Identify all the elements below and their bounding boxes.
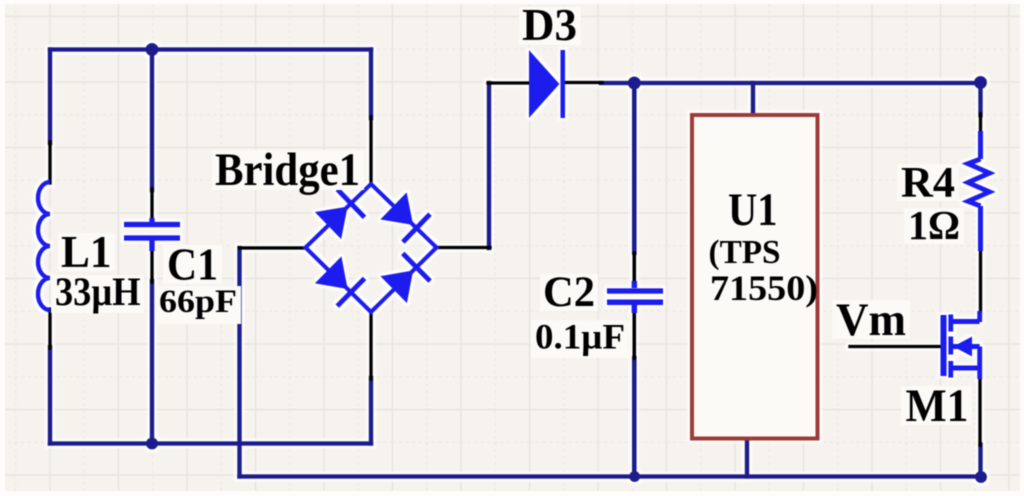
svg-text:C2: C2 <box>543 269 595 316</box>
svg-text:71550): 71550) <box>710 268 818 308</box>
svg-text:0.1µF: 0.1µF <box>535 317 625 357</box>
svg-text:M1: M1 <box>906 380 969 432</box>
svg-text:D3: D3 <box>522 0 577 50</box>
svg-text:C1: C1 <box>167 239 218 290</box>
svg-text:66pF: 66pF <box>159 284 237 320</box>
svg-text:Vm: Vm <box>836 294 906 346</box>
svg-text:1Ω: 1Ω <box>908 202 960 248</box>
svg-text:U1: U1 <box>728 184 778 236</box>
svg-text:33µH: 33µH <box>55 269 141 314</box>
svg-text:(TPS: (TPS <box>709 234 781 271</box>
svg-text:R4: R4 <box>901 160 955 207</box>
svg-text:Bridge1: Bridge1 <box>215 144 360 196</box>
